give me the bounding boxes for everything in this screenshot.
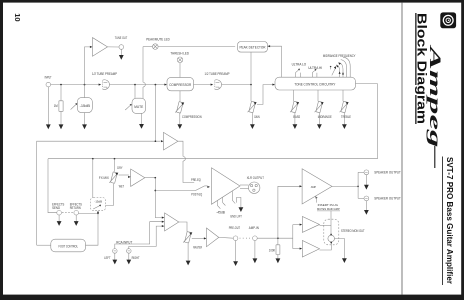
rca right jack — [127, 249, 132, 254]
svg-text:1/2 TUBE PREAMP: 1/2 TUBE PREAMP — [92, 72, 118, 76]
tuner buffer amp U1 — [93, 38, 108, 57]
wire buffer to summing amp — [155, 178, 162, 218]
peak/mute LED wire — [142, 47, 144, 83]
svg-text:PRE-EQ: PRE-EQ — [191, 178, 201, 182]
compression pot wire — [179, 91, 181, 102]
pad switch -15dB — [77, 98, 92, 113]
foot control block — [51, 239, 86, 252]
ground under effects send — [58, 215, 60, 221]
svg-text:PEAK DETECTOR: PEAK DETECTOR — [240, 46, 266, 50]
resistor 100K — [277, 238, 279, 245]
ground under effects return — [75, 215, 77, 221]
ultra hi switch — [311, 73, 313, 78]
effects send jack J3 — [57, 210, 62, 215]
svg-text:GND LIFT: GND LIFT — [230, 214, 242, 218]
thresh LED — [177, 57, 183, 63]
mute switch box — [132, 98, 146, 113]
ground under midrange pot — [317, 124, 322, 129]
svg-text:SEND: SEND — [52, 206, 60, 210]
pre-out wire — [219, 236, 234, 239]
-45dB pad switch on DI amp — [217, 200, 219, 205]
foot control left wire — [37, 244, 51, 246]
bass pot — [290, 101, 299, 112]
Ampeg circle logo — [440, 12, 456, 28]
LED wire hop over main line — [143, 82, 145, 87]
pre-eq wire hop over fx line — [183, 156, 185, 161]
svg-text:WET: WET — [119, 184, 125, 188]
svg-text:PEAK/MUTE LED: PEAK/MUTE LED — [146, 38, 170, 42]
fx mix buffer amp U3 — [131, 169, 145, 186]
junction node amp feed — [277, 237, 279, 239]
main signal wire — [51, 84, 100, 86]
fx send buffer output wire / pre-eq wire — [178, 141, 183, 156]
switch arrow on mute — [125, 105, 131, 110]
junction node gain — [250, 84, 252, 86]
wire return jack to fx switch — [79, 212, 99, 214]
xlr output connector — [249, 182, 260, 193]
tune out jack J2 — [119, 45, 124, 50]
junction node main-fx drop — [155, 84, 157, 86]
junction node post buffer — [154, 177, 156, 179]
wire tube V2 to gain — [222, 84, 251, 86]
svg-text:SPEAKER OUTPUT: SPEAKER OUTPUT — [374, 197, 401, 201]
LED to peak detector wire — [158, 46, 235, 48]
master wiper wire — [192, 237, 205, 239]
svg-text:STEREO MON OUT: STEREO MON OUT — [341, 229, 365, 233]
foot control sense arrow — [97, 212, 99, 215]
svg-text:DRY: DRY — [117, 166, 123, 170]
resistor 1M — [60, 86, 62, 101]
svg-text:TUNE OUT: TUNE OUT — [115, 36, 128, 40]
main power amp U7 — [302, 169, 332, 204]
balanced output pair wires — [240, 184, 249, 186]
svg-text:PRE-OUT: PRE-OUT — [229, 226, 241, 230]
ground under rca right — [128, 253, 130, 260]
switch arrow on -15dB — [71, 104, 77, 110]
pre-out buffer amp U6 — [207, 228, 219, 247]
ground lift switch — [231, 191, 233, 200]
junction node fx mix dry — [114, 158, 116, 160]
svg-text:1/2 TUBE PREAMP: 1/2 TUBE PREAMP — [205, 72, 231, 76]
fx send buffer amp U2 — [164, 132, 178, 150]
foot control riser wire — [37, 141, 161, 245]
svg-text:1M: 1M — [54, 104, 58, 108]
svg-text:RETURN: RETURN — [70, 206, 81, 210]
fx bypass switch arm — [92, 159, 94, 198]
svg-text:MUTE: MUTE — [134, 105, 144, 109]
junction node speaker split — [357, 186, 359, 188]
compression pot — [175, 102, 184, 113]
page border frame — [0, 0, 464, 3]
normalled dotted wire pre-out amp-in — [240, 237, 252, 239]
svg-text:FX MIX: FX MIX — [99, 176, 110, 180]
ground under -15dB — [82, 124, 87, 129]
summing amp output wire — [179, 222, 187, 232]
svg-text:TONE CONTROL CIRCUITRY: TONE CONTROL CIRCUITRY — [294, 83, 336, 87]
peak/mute LED — [153, 44, 159, 50]
rca right wire to summing amp — [129, 226, 162, 249]
wire to main amp — [278, 186, 300, 238]
DI amp U4 — [212, 168, 241, 205]
junction node main-pad — [84, 84, 86, 86]
svg-text:MIDRANGE FREQUENCY: MIDRANGE FREQUENCY — [323, 54, 356, 58]
svg-text:ULTRA LO: ULTRA LO — [292, 62, 307, 66]
sidebar divider line — [401, 3, 403, 295]
midrange rotary wiper arm — [332, 68, 336, 75]
amp-in wire — [257, 237, 293, 239]
ultra lo switch — [295, 72, 297, 77]
fx bypass output wire to fx mix wet — [106, 184, 114, 206]
junction node main-mute — [134, 84, 136, 86]
svg-text:COMPRESSION: COMPRESSION — [182, 115, 202, 119]
svg-text:TREBLE: TREBLE — [341, 115, 351, 119]
stereo mon jack wires — [330, 219, 332, 234]
ground under treble pot — [342, 124, 347, 129]
svg-text:COMPRESSOR: COMPRESSOR — [169, 83, 191, 87]
foot control right wire — [86, 213, 99, 245]
svg-text:SPEAKER OUTPUT: SPEAKER OUTPUT — [374, 171, 401, 175]
fx mix wiper wire — [119, 174, 129, 176]
fx mix pot wire dry — [114, 159, 116, 172]
svg-text:GAIN: GAIN — [254, 115, 260, 119]
junction node fx send — [155, 140, 157, 142]
amp-in jack J6 — [253, 236, 258, 241]
svg-text:-45dB: -45dB — [216, 211, 225, 215]
effects return jack J4 — [74, 210, 79, 215]
junction node fx return — [97, 213, 99, 215]
ground under stereo mon — [342, 258, 347, 263]
wire selector to DI amp — [205, 185, 208, 187]
ground under 1M — [59, 124, 64, 129]
tube preamp V1 — [102, 80, 109, 90]
svg-text:FOOT CONTROL: FOOT CONTROL — [58, 245, 78, 249]
tone output wire to fx line — [48, 84, 377, 159]
compressor block — [164, 84, 167, 86]
midrange pot wire — [317, 90, 319, 101]
ground under gain pot — [250, 124, 255, 129]
ground under pre-out jack — [235, 241, 237, 262]
junction node post-eq tap — [154, 190, 156, 192]
treble pot wire — [342, 90, 344, 101]
main amp output wire — [332, 185, 358, 187]
wire fx line to effects send — [48, 159, 57, 213]
fx mix buffer output wire — [145, 177, 156, 179]
ground under rca left — [114, 253, 116, 260]
svg-text:RIGHT: RIGHT — [132, 256, 141, 260]
speaker split wire — [357, 172, 359, 198]
tuner buffer amp wire — [85, 47, 91, 85]
treble pot — [340, 101, 349, 112]
svg-text:THRESH LED: THRESH LED — [170, 51, 189, 55]
wire main to fx send buffer — [154, 85, 156, 142]
rca left wire to summing amp — [115, 222, 162, 249]
post-eq wire — [155, 190, 195, 192]
ground under 100K — [276, 258, 281, 263]
peak detector input wire — [250, 52, 252, 85]
ground under bass pot — [293, 124, 298, 129]
junction node main-1M — [60, 84, 62, 86]
wire compressor to tube V2 — [194, 84, 212, 86]
tone control circuitry block — [275, 77, 356, 90]
stereo mon out jack — [328, 235, 335, 242]
svg-text:Ampeg: Ampeg — [426, 44, 443, 147]
svg-text:-15dB: -15dB — [94, 200, 102, 204]
ground under speaker jack 2 — [365, 201, 367, 210]
pre-out jack J5 — [233, 236, 238, 241]
midrange rotary base ticks — [339, 71, 341, 74]
stereo mon amp right U9 — [302, 241, 319, 258]
stereo mon out dashed jack box — [324, 219, 339, 245]
summing amp U5 — [165, 213, 179, 231]
stereo mon feed wire — [292, 225, 294, 249]
midrange pot — [315, 101, 324, 112]
fx mix pot — [109, 172, 118, 183]
junction node fx bypass drop — [92, 158, 94, 160]
ground under master pot — [186, 261, 191, 266]
arrow into tube V2 — [211, 84, 214, 86]
svg-text:MASTER: MASTER — [193, 245, 202, 249]
bass pot wire — [293, 90, 295, 101]
svg-text:AMP-IN: AMP-IN — [249, 226, 259, 230]
gain pot — [248, 101, 257, 112]
arrow into tube V1 — [99, 84, 102, 86]
svg-text:MIDRANGE: MIDRANGE — [318, 115, 332, 119]
ground under tune out jack — [120, 49, 122, 55]
svg-text:INPUT: INPUT — [45, 76, 53, 80]
svg-text:LEFT: LEFT — [104, 256, 111, 260]
ground under mute — [141, 113, 143, 124]
svg-text:BASS: BASS — [293, 115, 300, 119]
speaker output jack 2 — [364, 196, 369, 201]
stereo mon ground wire — [335, 239, 345, 259]
gain pot wire — [250, 86, 252, 101]
ground under input jack — [47, 87, 49, 125]
svg-text:-15dB: -15dB — [80, 104, 91, 108]
stereo mon amp left U8 — [302, 217, 319, 233]
ground under speaker jack 1 — [365, 175, 367, 185]
fx bypass switch dashed box — [91, 198, 106, 211]
input jack J1 — [46, 82, 51, 87]
tube preamp V2 — [214, 80, 221, 90]
svg-text:MUTES MAIN AMP: MUTES MAIN AMP — [317, 207, 340, 211]
peak detector sense wire from tone — [268, 46, 282, 77]
pre/post eq selector switch — [196, 186, 205, 191]
master pot — [183, 232, 192, 243]
midrange frequency rotary switch — [336, 57, 350, 77]
gain wiper wire to tone control — [257, 85, 273, 105]
svg-text:SVT-7 PRO Bass Guitar Amplifie: SVT-7 PRO Bass Guitar Amplifier — [445, 157, 455, 285]
ground under amp-in jack — [254, 241, 256, 259]
svg-text:AMP: AMP — [311, 185, 316, 189]
insert plug callout — [314, 196, 317, 199]
svg-text:100K: 100K — [269, 248, 276, 252]
svg-text:XLR OUTPUT: XLR OUTPUT — [247, 176, 265, 180]
peak detector block — [238, 42, 268, 53]
rca left jack — [113, 249, 118, 254]
normalled dashed wire send-return — [62, 212, 74, 214]
ground under compression pot — [177, 124, 182, 129]
speaker output jack 1 — [364, 170, 369, 175]
svg-text:POST-EQ: POST-EQ — [191, 193, 202, 197]
svg-text:10: 10 — [13, 13, 22, 21]
